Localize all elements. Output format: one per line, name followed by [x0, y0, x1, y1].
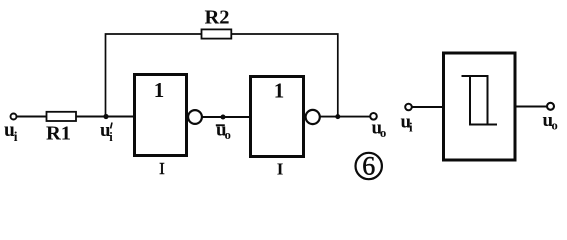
svg-text:o: o: [380, 126, 386, 140]
svg-text:o: o: [552, 119, 558, 133]
svg-text:1: 1: [154, 78, 165, 102]
svg-text:i: i: [409, 120, 413, 135]
svg-text:R2: R2: [204, 7, 229, 29]
svg-text:o: o: [225, 128, 231, 142]
svg-text:R1: R1: [46, 123, 71, 145]
svg-text:i: i: [14, 129, 18, 144]
svg-text:i: i: [109, 130, 113, 144]
svg-text:6: 6: [362, 152, 375, 181]
svg-text:I: I: [159, 159, 165, 178]
svg-text:1: 1: [274, 79, 285, 103]
svg-text:I: I: [277, 160, 284, 179]
